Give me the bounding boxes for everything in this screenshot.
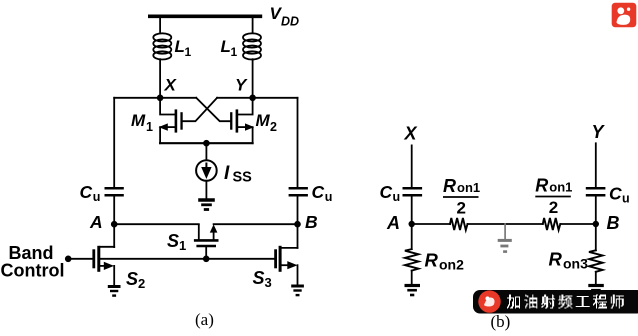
inductor L1 right [243, 33, 261, 59]
ground under ISS [198, 200, 215, 210]
wire Ron3 to ground [595, 272, 597, 284]
svg-text:DD: DD [281, 14, 299, 28]
ground under S3 [291, 286, 304, 295]
wire A down to Ron2 [411, 224, 413, 249]
svg-text:L: L [175, 37, 185, 56]
wire Cu to A (b) [411, 197, 413, 225]
svg-text:1: 1 [179, 238, 186, 253]
wire M2 drain [238, 98, 252, 115]
transistor S3 drain lead [282, 247, 298, 249]
switch S1 gate lead to control line [205, 247, 207, 259]
transistor M2 [230, 109, 254, 132]
transistor S2 source lead [100, 265, 107, 267]
switch S1 source lead [213, 229, 215, 239]
svg-text:B: B [607, 213, 620, 233]
wire M1 drain [160, 98, 175, 115]
svg-text:on2: on2 [439, 257, 464, 273]
wire Cu right to node B [297, 197, 299, 225]
svg-text:Y: Y [235, 76, 248, 95]
wire M2 source [238, 126, 249, 128]
wire B vertical to S3 drain [297, 224, 299, 248]
resistor Ron1/2 left zigzag [450, 218, 467, 230]
current source ISS circle [196, 160, 217, 181]
svg-text:C: C [312, 182, 325, 202]
wire top line Y to right corner [217, 97, 297, 99]
svg-text:C: C [80, 182, 93, 202]
wire left coil to node X [159, 59, 161, 98]
svg-text:S: S [253, 268, 265, 288]
node tail dot [203, 140, 210, 147]
svg-text:u: u [622, 192, 630, 206]
wire cross-couple M1 gate diagonal [183, 98, 218, 121]
svg-text:(a): (a) [195, 310, 214, 329]
resistor Ron1/2 right zigzag [543, 218, 561, 230]
svg-text:R: R [535, 176, 548, 196]
label Ron1/2 right fraction [535, 176, 572, 218]
wire ISS to ground [205, 181, 207, 199]
svg-text:3: 3 [265, 275, 272, 290]
svg-text:X: X [164, 76, 178, 95]
transistor S2 gate bar [92, 249, 95, 268]
S3 source arrow right [287, 261, 297, 269]
wire right resistor to B [560, 223, 596, 225]
node A dot (b) [409, 221, 415, 227]
transistor S3 source lead [282, 264, 290, 266]
wire right branch Y down to Cu [297, 98, 299, 187]
wire right coil to node Y [252, 59, 254, 98]
svg-text:A: A [89, 212, 103, 232]
wire left branch X down to Cu [113, 98, 115, 187]
svg-text:1: 1 [185, 45, 192, 59]
wire band control line [68, 258, 93, 260]
svg-text:on1: on1 [549, 180, 572, 195]
wire between resistors [468, 223, 543, 225]
svg-text:(b): (b) [491, 312, 511, 331]
label Ron1/2 left fraction [443, 176, 480, 218]
svg-text:2: 2 [549, 198, 558, 217]
svg-text:u: u [393, 190, 401, 204]
watermark chinese text [507, 295, 624, 309]
svg-text:1: 1 [146, 120, 153, 134]
switch S1 gate bar [196, 245, 216, 247]
wire center ground stem (gray) [504, 224, 506, 239]
watermark box bottom right [473, 290, 638, 314]
node band control dot [65, 255, 72, 262]
svg-text:on1: on1 [457, 180, 480, 195]
wire Y drop (b) [595, 143, 597, 187]
capacitor Cu right (b) [586, 188, 606, 195]
node A dot [111, 221, 118, 228]
wire rail to left coil [159, 18, 161, 32]
svg-text:B: B [305, 212, 318, 232]
wire Cu to B (b) [595, 197, 597, 225]
transistor M1 [159, 109, 183, 132]
wire Ron2 to ground [411, 271, 413, 284]
svg-text:SS: SS [233, 170, 253, 186]
node X dot [157, 95, 164, 102]
wire cross-couple M2 gate diagonal [196, 98, 230, 121]
VDD rail [148, 14, 262, 18]
ground under S2 [108, 287, 121, 296]
svg-text:u: u [93, 190, 101, 204]
wire tail to ISS [205, 143, 207, 160]
svg-text:Y: Y [592, 122, 606, 142]
wire node A to S1 drain [114, 223, 199, 225]
ground center gray (b) [498, 240, 512, 251]
watermark red circle logo [478, 290, 500, 312]
S1 source arrow up [210, 224, 218, 232]
wire A to left resistor [412, 223, 450, 225]
svg-text:C: C [380, 182, 393, 202]
svg-text:L: L [221, 37, 231, 56]
svg-text:on3: on3 [563, 256, 588, 272]
svg-text:Control: Control [1, 260, 65, 280]
svg-text:M: M [131, 111, 146, 130]
S2 source arrow right [104, 262, 114, 270]
wire top line X to left corner [114, 97, 196, 99]
svg-text:2: 2 [270, 120, 277, 134]
node B dot (b) [593, 221, 599, 227]
svg-text:1: 1 [231, 45, 238, 59]
svg-text:u: u [325, 190, 333, 204]
node B dot [294, 221, 301, 228]
resistor Ron2 zigzag [405, 249, 419, 271]
svg-text:R: R [549, 249, 563, 270]
capacitor Cu left [105, 188, 124, 195]
ground under Ron3 [588, 286, 604, 296]
switch S1 channel bar [194, 239, 219, 242]
transistor S3 channel bar [279, 246, 282, 272]
inductor L1 left [153, 33, 171, 59]
svg-text:C: C [609, 184, 622, 204]
svg-text:R: R [425, 250, 439, 271]
wire common source [160, 142, 253, 144]
node S1 gate dot [203, 255, 210, 262]
svg-text:A: A [386, 213, 400, 233]
node Y dot [249, 95, 256, 102]
svg-text:R: R [443, 176, 456, 196]
capacitor Cu right [289, 188, 308, 195]
transistor S2 drain lead [100, 246, 114, 248]
wire M1 source [164, 126, 175, 128]
wire B down to Ron3 [595, 224, 597, 250]
svg-text:2: 2 [457, 199, 466, 218]
transistor S2 channel bar [97, 246, 100, 272]
transistor S3 gate bar [274, 249, 277, 268]
resistor Ron3 zigzag [589, 250, 603, 272]
svg-text:M: M [256, 111, 271, 130]
ISS arrow [201, 163, 211, 180]
wire rail to right coil [252, 18, 254, 32]
svg-text:X: X [404, 124, 418, 144]
switch S1 drain lead [198, 225, 200, 239]
svg-text:S: S [167, 231, 179, 251]
capacitor Cu left (b) [403, 188, 423, 195]
svg-text:I: I [224, 163, 230, 184]
wire S1 source to node B [214, 223, 298, 225]
top-right red logo [612, 3, 637, 28]
svg-text:S: S [126, 269, 138, 289]
ground under Ron2 [405, 286, 421, 296]
wire A vertical to S2 drain [113, 224, 115, 247]
wire X drop (b) [411, 145, 413, 187]
wire Cu left to node A [113, 197, 115, 225]
svg-text:2: 2 [138, 276, 145, 291]
